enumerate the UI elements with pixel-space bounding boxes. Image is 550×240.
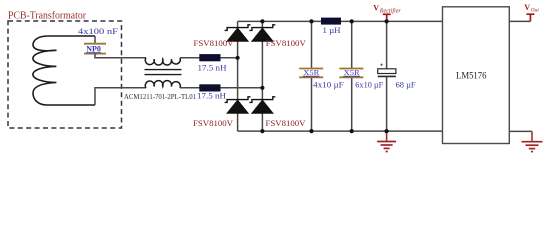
diode D2 top-right FSV8100V bbox=[249, 25, 275, 41]
wire bridge left leg bbox=[237, 21, 239, 131]
svg-text:Out: Out bbox=[531, 8, 539, 14]
transformer winding L1 bbox=[33, 36, 95, 105]
wire from C1 to choke top bbox=[95, 54, 146, 58]
diode D4 bottom-right FSV8100V bbox=[249, 97, 275, 113]
capacitor C3 plates bbox=[339, 69, 363, 78]
label NP0 bbox=[86, 44, 101, 53]
svg-text:LM5176: LM5176 bbox=[456, 70, 487, 81]
wire bridge right leg bbox=[261, 21, 263, 131]
label X5R C2 bbox=[303, 68, 320, 77]
svg-text:FSV8100V: FSV8100V bbox=[266, 38, 307, 48]
label V_Rectifier bbox=[373, 4, 401, 15]
svg-text:PCB-Transformator: PCB-Transformator bbox=[8, 11, 87, 22]
inductor L3 17.5nH body bbox=[199, 84, 220, 91]
wire choke top to node A bbox=[180, 57, 238, 59]
wire transformer bottom to choke bottom bbox=[95, 88, 146, 105]
svg-text:NP0: NP0 bbox=[86, 44, 101, 53]
wire top lead into capacitor C1 bbox=[94, 36, 96, 44]
svg-text:1 µH: 1 µH bbox=[323, 25, 341, 35]
svg-text:Rectifier: Rectifier bbox=[379, 8, 402, 15]
inductor L4 1uH body bbox=[321, 18, 341, 25]
capacitor C4 plus mark bbox=[380, 63, 383, 66]
diode D1 top-left FSV8100V bbox=[225, 25, 251, 41]
capacitor C3 6x10uF leads bbox=[351, 21, 353, 131]
svg-text:6x10 µF: 6x10 µF bbox=[355, 80, 383, 90]
capacitor C1 4x100nF plates bbox=[84, 44, 106, 54]
svg-text:17.5 nH: 17.5 nH bbox=[198, 62, 227, 72]
wire top bus bbox=[238, 20, 443, 22]
svg-text:4x100 nF: 4x100 nF bbox=[78, 26, 118, 36]
label V_Out bbox=[524, 3, 539, 14]
dashed boundary box of PCB transformer bbox=[8, 21, 122, 128]
junction node dots bbox=[236, 19, 389, 133]
svg-text:ACM1211-701-2PL-TL01: ACM1211-701-2PL-TL01 bbox=[124, 92, 196, 101]
svg-text:FSV8100V: FSV8100V bbox=[193, 118, 234, 128]
choke U2 core lines bbox=[145, 70, 182, 75]
inductor L2 17.5nH body bbox=[199, 54, 220, 61]
svg-text:4x10 µF: 4x10 µF bbox=[313, 80, 344, 90]
svg-text:V: V bbox=[524, 3, 530, 12]
svg-text:68 µF: 68 µF bbox=[396, 80, 416, 90]
wire LM5176 to V_Out bbox=[509, 20, 530, 22]
capacitor C4 bottom plate bbox=[378, 75, 396, 77]
capacitor C2 4x10uF leads bbox=[311, 21, 313, 131]
capacitor C4 polarized plate box bbox=[378, 69, 396, 74]
choke U2 bottom winding bbox=[145, 81, 180, 88]
svg-text:FSV8100V: FSV8100V bbox=[266, 118, 307, 128]
voltage probe V_Rectifier bbox=[383, 14, 391, 20]
capacitor C4 68uF leads bbox=[386, 21, 388, 131]
choke U2 top winding bbox=[145, 58, 180, 65]
diode D3 bottom-left FSV8100V bbox=[225, 97, 251, 113]
voltage probe V_Out bbox=[526, 14, 534, 21]
op block U1 LM5176 bbox=[443, 7, 510, 144]
label X5R C3 bbox=[343, 68, 360, 77]
wire bottom bus bbox=[238, 130, 443, 132]
ground G2 right bbox=[522, 131, 543, 151]
ground G1 center bbox=[377, 131, 396, 151]
svg-text:17.5 nH: 17.5 nH bbox=[197, 90, 226, 100]
wire LM5176 to ground G2 bbox=[509, 130, 532, 132]
svg-text:FSV8100V: FSV8100V bbox=[194, 38, 235, 48]
svg-text:V: V bbox=[373, 4, 379, 13]
wire choke bottom to node B bbox=[180, 87, 262, 89]
capacitor C2 plates bbox=[299, 69, 323, 78]
